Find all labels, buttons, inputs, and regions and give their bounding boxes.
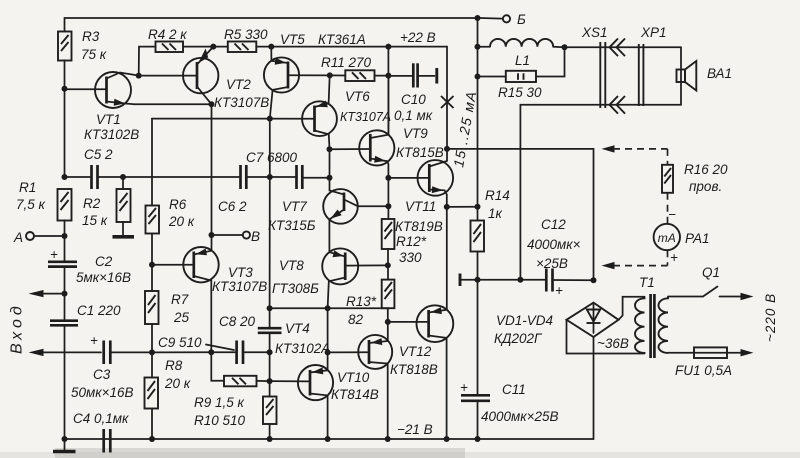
svg-text:VT10: VT10 — [337, 370, 370, 385]
wire rectifier bottom to minus rail — [593, 337, 595, 439]
wire C5 to R2 — [98, 176, 241, 178]
wire C6 to C7 — [246, 176, 296, 178]
svg-text:0,1 мк: 0,1 мк — [394, 108, 433, 123]
svg-text:R8: R8 — [165, 358, 183, 373]
node R12 / VT8 base junction — [385, 262, 391, 268]
svg-text:С5 2: С5 2 — [84, 147, 113, 162]
node rail C11 junction — [475, 436, 481, 442]
wire C8 bottom to C9 junction to R9 junction — [269, 333, 271, 381]
transistor VT2 — [139, 47, 270, 110]
dashed meter link upper — [602, 145, 668, 165]
svg-text:25: 25 — [173, 310, 190, 325]
svg-text:Q1: Q1 — [702, 265, 720, 280]
transistor VT9 — [330, 76, 444, 178]
svg-text:R4 2 к: R4 2 к — [148, 27, 187, 42]
meter PA1 — [654, 224, 710, 250]
connector contact chevrons bottom — [610, 96, 626, 114]
svg-text:+: + — [50, 247, 58, 262]
node VT3 collector / C9 / R9 junction — [208, 349, 214, 355]
wire to connector XS1 top — [553, 46, 681, 49]
svg-text:КТ3107В: КТ3107В — [214, 95, 269, 110]
capacitor C3 — [71, 333, 152, 400]
svg-text:XS1: XS1 — [581, 25, 608, 40]
node R14 bottom / C11 junction — [475, 277, 481, 283]
svg-text:R1: R1 — [19, 180, 36, 195]
dashed meter link lower — [602, 250, 679, 269]
node R11 right / C10 junction — [385, 73, 391, 79]
svg-text:ВА1: ВА1 — [707, 66, 732, 81]
svg-text:КТ819В: КТ819В — [395, 219, 443, 234]
svg-text:С6 2: С6 2 — [218, 199, 247, 214]
svg-text:4000мк×25В: 4000мк×25В — [481, 409, 559, 424]
node measuring break × — [441, 96, 454, 108]
svg-text:VT7: VT7 — [282, 199, 307, 214]
wire C3 node to VT3 collector node — [152, 351, 211, 353]
wire +supply column with measuring point — [446, 47, 448, 149]
svg-text:КТ3107В: КТ3107В — [212, 279, 267, 294]
svg-text:VT4: VT4 — [285, 321, 310, 336]
svg-text:−21 В: −21 В — [397, 422, 433, 437]
svg-text:VT6: VT6 — [345, 89, 370, 104]
wire VT4 column upper — [327, 308, 329, 352]
transistor VT1 — [65, 72, 140, 142]
svg-text:1к: 1к — [488, 206, 503, 221]
svg-text:R12*: R12* — [396, 234, 427, 249]
resistor R12 — [382, 219, 427, 280]
node C6/C7 tap junction — [267, 174, 273, 180]
svg-text:×25В: ×25В — [536, 256, 568, 271]
resistor R7 — [145, 265, 190, 353]
node C12 / rectifier junction — [591, 277, 597, 283]
inductor L1 — [478, 39, 554, 68]
node C8 top / bias line junction — [267, 305, 273, 311]
node VT5 collector junction — [267, 116, 273, 122]
node R2 top junction — [120, 174, 126, 180]
svg-text:5мк×16В: 5мк×16В — [76, 270, 131, 285]
svg-text:С7 6800: С7 6800 — [246, 150, 298, 165]
svg-text:L1: L1 — [515, 53, 530, 68]
svg-text:С12: С12 — [541, 217, 566, 232]
terminal A — [13, 230, 65, 245]
svg-text:КТ315Б: КТ315Б — [268, 218, 316, 233]
wire +22V rail — [271, 30, 447, 47]
svg-text:VT1: VT1 — [96, 112, 121, 127]
node VT2 emitter junction — [210, 44, 216, 50]
wire C6/C7 tap down to C8 — [269, 177, 271, 308]
node rail R10 junction — [267, 436, 273, 442]
svg-text:А: А — [13, 230, 23, 245]
svg-text:R13*: R13* — [346, 294, 377, 309]
wire input arrow lower / C3 line — [29, 349, 102, 356]
wire R4 left leg — [139, 47, 156, 76]
svg-text:КТ815В: КТ815В — [396, 145, 444, 160]
capacitor C2 — [48, 236, 131, 294]
svg-text:R9 1,5 к: R9 1,5 к — [194, 395, 245, 410]
capacitor C12 — [527, 217, 594, 298]
node input line / R1 junction — [62, 174, 68, 180]
node R7/R8/C3 junction — [149, 349, 155, 355]
capacitor C6 — [218, 165, 247, 214]
transformer T1 secondary winding — [635, 275, 655, 354]
resistor R6 — [146, 119, 195, 265]
wire VT1 base node down to input line — [64, 89, 66, 177]
wire VT9 emitter node down to VT7 collector node — [387, 178, 389, 219]
node output junction (VT11 emitter / VT12 emitter) — [444, 204, 450, 210]
wire R4 to VT2 emitter node — [183, 46, 213, 48]
wire feedback line R6 top / VT5 collector / VT6 base — [152, 118, 315, 120]
node VT1 base junction — [62, 86, 68, 92]
wire C7 to VT7 base node — [302, 177, 329, 179]
node VT2 collector / terminal B junction — [209, 232, 215, 238]
svg-text:VD1-VD4: VD1-VD4 — [496, 313, 553, 328]
svg-text:ГТ308Б: ГТ308Б — [272, 281, 319, 296]
switch Q1 — [668, 265, 754, 300]
svg-text:VT12: VT12 — [399, 344, 432, 359]
svg-text:+: + — [90, 333, 98, 348]
wire speaker/feedback column (Б to output node) — [477, 18, 479, 207]
svg-text:~220 В: ~220 В — [763, 293, 778, 342]
node output / R14 column junction — [475, 204, 481, 210]
wire: output/feedback top rail (to point Б) — [65, 17, 478, 19]
node VT7 base junction — [327, 175, 333, 181]
svg-text:FU1 0,5А: FU1 0,5А — [675, 363, 732, 378]
svg-text:С2: С2 — [95, 254, 113, 269]
resistor R16 — [662, 162, 728, 194]
svg-text:~36В: ~36В — [597, 336, 629, 351]
transistor VT10 — [328, 322, 393, 439]
ground chassis bottom left — [53, 439, 76, 452]
svg-text:R15 30: R15 30 — [498, 85, 542, 100]
svg-text:VT11: VT11 — [405, 199, 436, 214]
resistor R2 — [82, 177, 131, 228]
wire R5 to VT5 emitter node — [256, 46, 271, 48]
node L1/R15 right junction — [562, 44, 568, 50]
resistor R5 — [213, 27, 268, 52]
svg-text:VT9: VT9 — [403, 126, 428, 141]
svg-text:R2: R2 — [83, 196, 101, 211]
node VT3 base junction — [149, 262, 155, 268]
svg-text:R16 20: R16 20 — [684, 162, 728, 177]
resistor R9 — [194, 352, 270, 410]
transformer T1 core — [651, 294, 655, 358]
label ~220 V — [763, 293, 778, 342]
resistor R1 — [16, 180, 72, 236]
capacitor C10 — [388, 63, 434, 123]
node speaker return junction — [517, 277, 523, 283]
svg-text:R14: R14 — [485, 188, 510, 203]
svg-text:VT2: VT2 — [226, 77, 251, 92]
terminal B — [212, 229, 261, 244]
svg-text:КТ818В: КТ818В — [390, 362, 438, 377]
loudspeaker BA1 — [677, 61, 733, 91]
connector contact chevrons top — [610, 39, 626, 57]
svg-text:Т1: Т1 — [639, 275, 655, 290]
svg-text:С10: С10 — [401, 92, 426, 107]
node VT8 collector / VT4 emitter junction — [325, 305, 331, 311]
svg-text:20 к: 20 к — [164, 376, 191, 391]
svg-text:С3: С3 — [93, 367, 111, 382]
svg-text:7,5 к: 7,5 к — [16, 197, 46, 212]
svg-text:50мк×16В: 50мк×16В — [71, 385, 134, 400]
svg-text:КТ814В: КТ814В — [331, 387, 379, 402]
wire input arrow upper — [29, 290, 65, 297]
resistor R4 — [148, 27, 187, 52]
node VT4 emitter / VT10 base junction — [325, 349, 331, 355]
node C2 bottom / input arrow junction — [62, 291, 68, 297]
svg-text:R7: R7 — [171, 292, 189, 307]
resistor R11 — [321, 55, 388, 81]
label Вход — [9, 302, 26, 354]
wire rectifier AC right leg — [619, 297, 645, 320]
wire supply feed line to rectifier column — [447, 149, 594, 280]
ground bar at R2 — [113, 222, 135, 237]
svg-text:+: + — [555, 283, 563, 298]
node R15 left junction — [475, 74, 481, 80]
wire VT6 collector node to VT7 base node — [329, 149, 331, 178]
resistor R10 — [194, 381, 277, 439]
node A junction — [62, 233, 68, 239]
resistor R13 — [346, 280, 394, 327]
svg-text:R10 510: R10 510 — [194, 413, 246, 428]
svg-text:XP1: XP1 — [640, 25, 667, 40]
ground bar at output midpoint — [460, 274, 546, 287]
svg-text:пров.: пров. — [689, 179, 722, 194]
capacitor C7 — [246, 150, 302, 189]
node +22 rail to R11 column — [385, 44, 391, 50]
wire +22 column to VT9 collector — [387, 47, 389, 135]
capacitor C8 — [219, 308, 282, 333]
dashed meter link to PA1 — [668, 193, 677, 224]
node C9 right / column junction — [267, 349, 273, 355]
node VT6 collector / VT9 base junction — [327, 146, 333, 152]
svg-text:РА1: РА1 — [685, 231, 709, 246]
svg-text:+: + — [460, 380, 468, 395]
svg-text:КТ3107А: КТ3107А — [340, 110, 391, 124]
terminal Б — [481, 12, 527, 27]
svg-text:R5 330: R5 330 — [224, 27, 268, 42]
svg-text:VT8: VT8 — [279, 258, 304, 273]
wire R3 bottom to VT1 base node — [64, 61, 66, 89]
svg-text:Б: Б — [517, 12, 526, 27]
svg-text:−: − — [668, 207, 676, 222]
svg-text:КТ361А: КТ361А — [318, 32, 366, 47]
svg-text:20 к: 20 к — [168, 214, 195, 229]
resistor R14 — [471, 188, 510, 280]
transistor VT8 — [272, 248, 388, 308]
transistor VT7 — [268, 178, 388, 252]
resistor R15 — [478, 47, 565, 100]
wire -21V bottom rail — [65, 422, 594, 439]
transistor VT4 — [270, 321, 334, 439]
svg-text:15 к: 15 к — [82, 213, 108, 228]
capacitor C1 — [50, 294, 121, 439]
svg-text:С1 220: С1 220 — [77, 303, 121, 318]
transistor VT6 — [302, 75, 391, 149]
node rail VT10 collector junction — [385, 436, 391, 442]
wire output node to speaker column — [447, 206, 478, 208]
node VT5 base / R11 / VT6 emitter junction — [327, 72, 333, 78]
capacitor C9 — [158, 335, 270, 364]
svg-text:330: 330 — [399, 250, 422, 265]
svg-text:VT5: VT5 — [280, 32, 305, 47]
capacitor C5 — [84, 147, 113, 189]
svg-text:75 к: 75 к — [81, 47, 107, 62]
svg-text:С8 20: С8 20 — [219, 314, 256, 329]
transistor VT5 — [264, 32, 366, 119]
svg-text:+22 В: +22 В — [400, 30, 436, 45]
node VT2 collector junction — [209, 101, 215, 107]
wire speaker loop — [520, 47, 681, 279]
label 15...25 mA — [450, 89, 479, 168]
transistor VT11 — [388, 149, 453, 234]
svg-text:Вход: Вход — [9, 302, 26, 354]
wire VT1 emitter / VT2 collector node line — [134, 103, 212, 105]
wire input line segment A — [65, 176, 92, 178]
svg-text:КД202Г: КД202Г — [494, 331, 543, 346]
svg-text:КТ3102В: КТ3102В — [84, 127, 139, 142]
svg-text:С11: С11 — [502, 382, 526, 397]
node rail VT4 collector junction — [325, 436, 331, 442]
capacitor C4 — [73, 411, 129, 453]
transistor VT3 — [152, 247, 267, 352]
node rail R8 junction — [149, 436, 155, 442]
ground bar at C10 — [435, 68, 438, 84]
svg-text:82: 82 — [348, 312, 364, 327]
svg-text:+: + — [670, 250, 678, 265]
wire C6-C7 tap column — [269, 119, 271, 177]
node VT1 collector / VT2 base / R4 junction — [136, 73, 142, 79]
svg-text:КТ3102А: КТ3102А — [275, 341, 330, 356]
svg-text:С4 0,1мк: С4 0,1мк — [73, 411, 129, 426]
resistor R8 — [145, 352, 191, 439]
svg-text:В: В — [251, 229, 260, 244]
wire bias line to R13 bottom — [270, 307, 388, 309]
node R9 / R10 / VT4 base junction — [267, 378, 273, 384]
rectifier bridge VD1-VD4 — [494, 303, 629, 351]
node VT7 collector junction — [385, 203, 391, 209]
node rail C1 junction — [62, 436, 68, 442]
node supply feed junction — [444, 146, 450, 152]
fuse FU1 — [668, 347, 754, 378]
transistor VT12 — [388, 207, 454, 439]
node Б junction dot — [475, 15, 481, 21]
capacitor C11 — [460, 280, 559, 439]
connector XP1 — [639, 25, 667, 106]
node rail VT12 collector junction — [444, 436, 450, 442]
node VT12 base / VT10 emitter junction — [385, 319, 391, 325]
connector XS1 — [581, 25, 608, 108]
svg-text:R6: R6 — [169, 197, 187, 212]
wire rectifier AC left leg — [567, 320, 645, 354]
node VT9 emitter / VT11 base junction — [385, 175, 391, 181]
transformer T1 primary winding — [659, 297, 669, 354]
svg-text:С9 510: С9 510 — [158, 335, 202, 350]
resistor R3 — [58, 18, 107, 62]
svg-text:4000мк×: 4000мк× — [527, 237, 581, 252]
svg-text:тА: тА — [658, 231, 676, 245]
node L1 left junction — [475, 44, 481, 50]
wire VT2 collector column down to VT3 emitter — [211, 104, 213, 250]
svg-text:R3: R3 — [82, 29, 100, 44]
svg-text:VT3: VT3 — [228, 265, 253, 280]
node VT5 emitter junction — [268, 44, 274, 50]
svg-text:R11 270: R11 270 — [321, 55, 372, 70]
